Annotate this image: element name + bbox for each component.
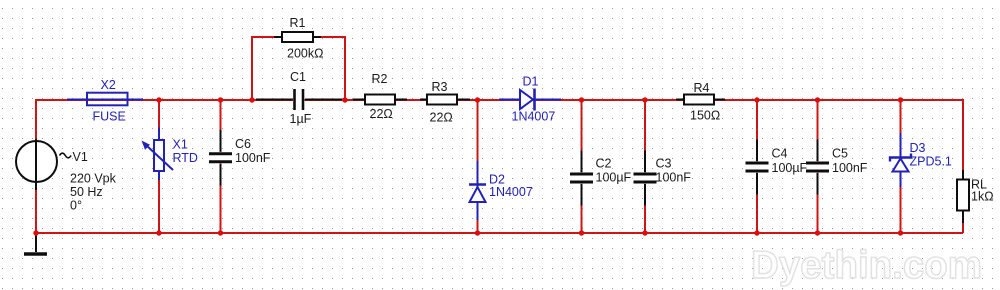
svg-text:22Ω: 22Ω: [370, 107, 393, 121]
svg-text:R2: R2: [372, 72, 388, 86]
svg-text:1kΩ: 1kΩ: [971, 190, 994, 204]
svg-text:220 Vpk: 220 Vpk: [70, 172, 117, 186]
svg-text:X2: X2: [101, 78, 116, 92]
svg-text:C2: C2: [596, 157, 612, 171]
svg-text:C5: C5: [832, 147, 848, 161]
svg-text:R3: R3: [432, 80, 448, 94]
svg-text:V1: V1: [73, 150, 88, 164]
svg-text:200kΩ: 200kΩ: [287, 47, 323, 61]
svg-text:1N4007: 1N4007: [489, 185, 533, 199]
svg-text:D1: D1: [523, 75, 539, 89]
svg-text:22Ω: 22Ω: [430, 111, 453, 125]
svg-text:100nF: 100nF: [235, 151, 271, 165]
svg-text:C4: C4: [772, 147, 788, 161]
svg-text:X1: X1: [173, 138, 188, 152]
svg-text:100nF: 100nF: [656, 171, 692, 185]
svg-text:ZPD5.1: ZPD5.1: [910, 155, 952, 169]
svg-text:R4: R4: [694, 81, 710, 95]
svg-text:Dyethin.com: Dyethin.com: [751, 244, 982, 287]
svg-text:C1: C1: [290, 70, 306, 84]
svg-text:100nF: 100nF: [832, 161, 868, 175]
svg-text:1µF: 1µF: [290, 112, 312, 126]
svg-text:0°: 0°: [70, 199, 82, 213]
svg-text:50 Hz: 50 Hz: [70, 185, 103, 199]
svg-text:100µF: 100µF: [596, 171, 632, 185]
svg-text:RTD: RTD: [173, 151, 198, 165]
svg-text:C6: C6: [235, 137, 251, 151]
svg-text:D3: D3: [910, 141, 926, 155]
svg-text:1N4007: 1N4007: [512, 110, 556, 124]
svg-text:FUSE: FUSE: [93, 110, 126, 124]
svg-text:100µF: 100µF: [772, 161, 808, 175]
svg-text:C3: C3: [656, 157, 672, 171]
svg-text:150Ω: 150Ω: [690, 109, 720, 123]
svg-text:R1: R1: [290, 16, 306, 30]
